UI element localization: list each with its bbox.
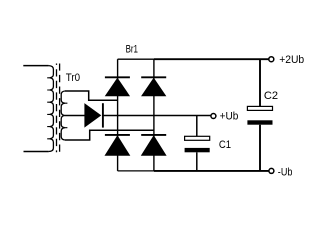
- wire secondary top tap to bridge left column: [65, 91, 118, 100]
- wire +Ub net from cathode to terminal: [103, 115, 211, 117]
- diode bottom-left cathode bar: [105, 134, 130, 136]
- svg-text:C2: C2: [264, 90, 278, 102]
- bridge Br1 right column: [153, 59, 155, 171]
- capacitor C1 top plate: [185, 136, 210, 140]
- diode bottom-right cathode bar: [141, 134, 166, 136]
- transformer Tr0 primary bottom lead: [24, 151, 49, 153]
- terminal -Ub: [269, 168, 274, 173]
- transformer Tr0 secondary winding lower half: [61, 116, 65, 141]
- capacitor C2 bottom plate: [247, 120, 272, 124]
- transformer Tr0 primary winding: [49, 66, 54, 152]
- diode top-right triangle: [142, 78, 166, 96]
- svg-text:+2Ub: +2Ub: [279, 54, 304, 66]
- svg-text:C1: C1: [219, 139, 231, 151]
- capacitor C1 bottom plate: [185, 148, 210, 152]
- wire +2Ub net (top rail to terminal): [154, 58, 269, 60]
- svg-text:+Ub: +Ub: [220, 111, 239, 123]
- svg-text:Br1: Br1: [126, 44, 138, 56]
- transformer Tr0 primary top lead: [23, 65, 48, 67]
- terminal +Ub: [211, 114, 216, 119]
- bridge Br1 left column: [117, 59, 119, 171]
- diode cathode bar: [102, 103, 104, 127]
- primary cusp ticks: [47, 78, 50, 139]
- diode top-left cathode bar: [105, 76, 130, 78]
- wire C1 top lead: [196, 116, 198, 137]
- wire C2 top lead: [259, 59, 261, 106]
- wire -Ub net (bottom rail to terminal): [154, 170, 269, 172]
- diode top-right cathode bar: [141, 76, 166, 78]
- diode top-left triangle: [106, 78, 130, 96]
- diode bottom-right triangle: [142, 136, 166, 156]
- terminal +2Ub: [269, 57, 274, 62]
- transformer core dashed line left: [56, 64, 58, 153]
- transformer Tr0 secondary winding upper half: [61, 91, 65, 116]
- svg-text:-Ub: -Ub: [278, 167, 293, 179]
- wire C1 bottom lead: [196, 152, 198, 171]
- secondary cusp ticks: [64, 103, 67, 128]
- bridge Br1 bottom rail (symbol): [118, 170, 154, 172]
- diode bottom-left triangle: [105, 136, 129, 156]
- diode (bridge Br1, right-pointing) triangle: [85, 104, 101, 127]
- wire secondary bottom tap to bridge right column: [65, 130, 154, 140]
- wire secondary center tap to diode anode: [65, 115, 85, 117]
- svg-text:Tr0: Tr0: [66, 72, 80, 84]
- capacitor C2 top plate: [247, 106, 272, 110]
- wire C2 bottom lead: [259, 125, 261, 171]
- transformer core dashed line right: [59, 64, 61, 153]
- bridge Br1 top rail (symbol): [118, 58, 154, 60]
